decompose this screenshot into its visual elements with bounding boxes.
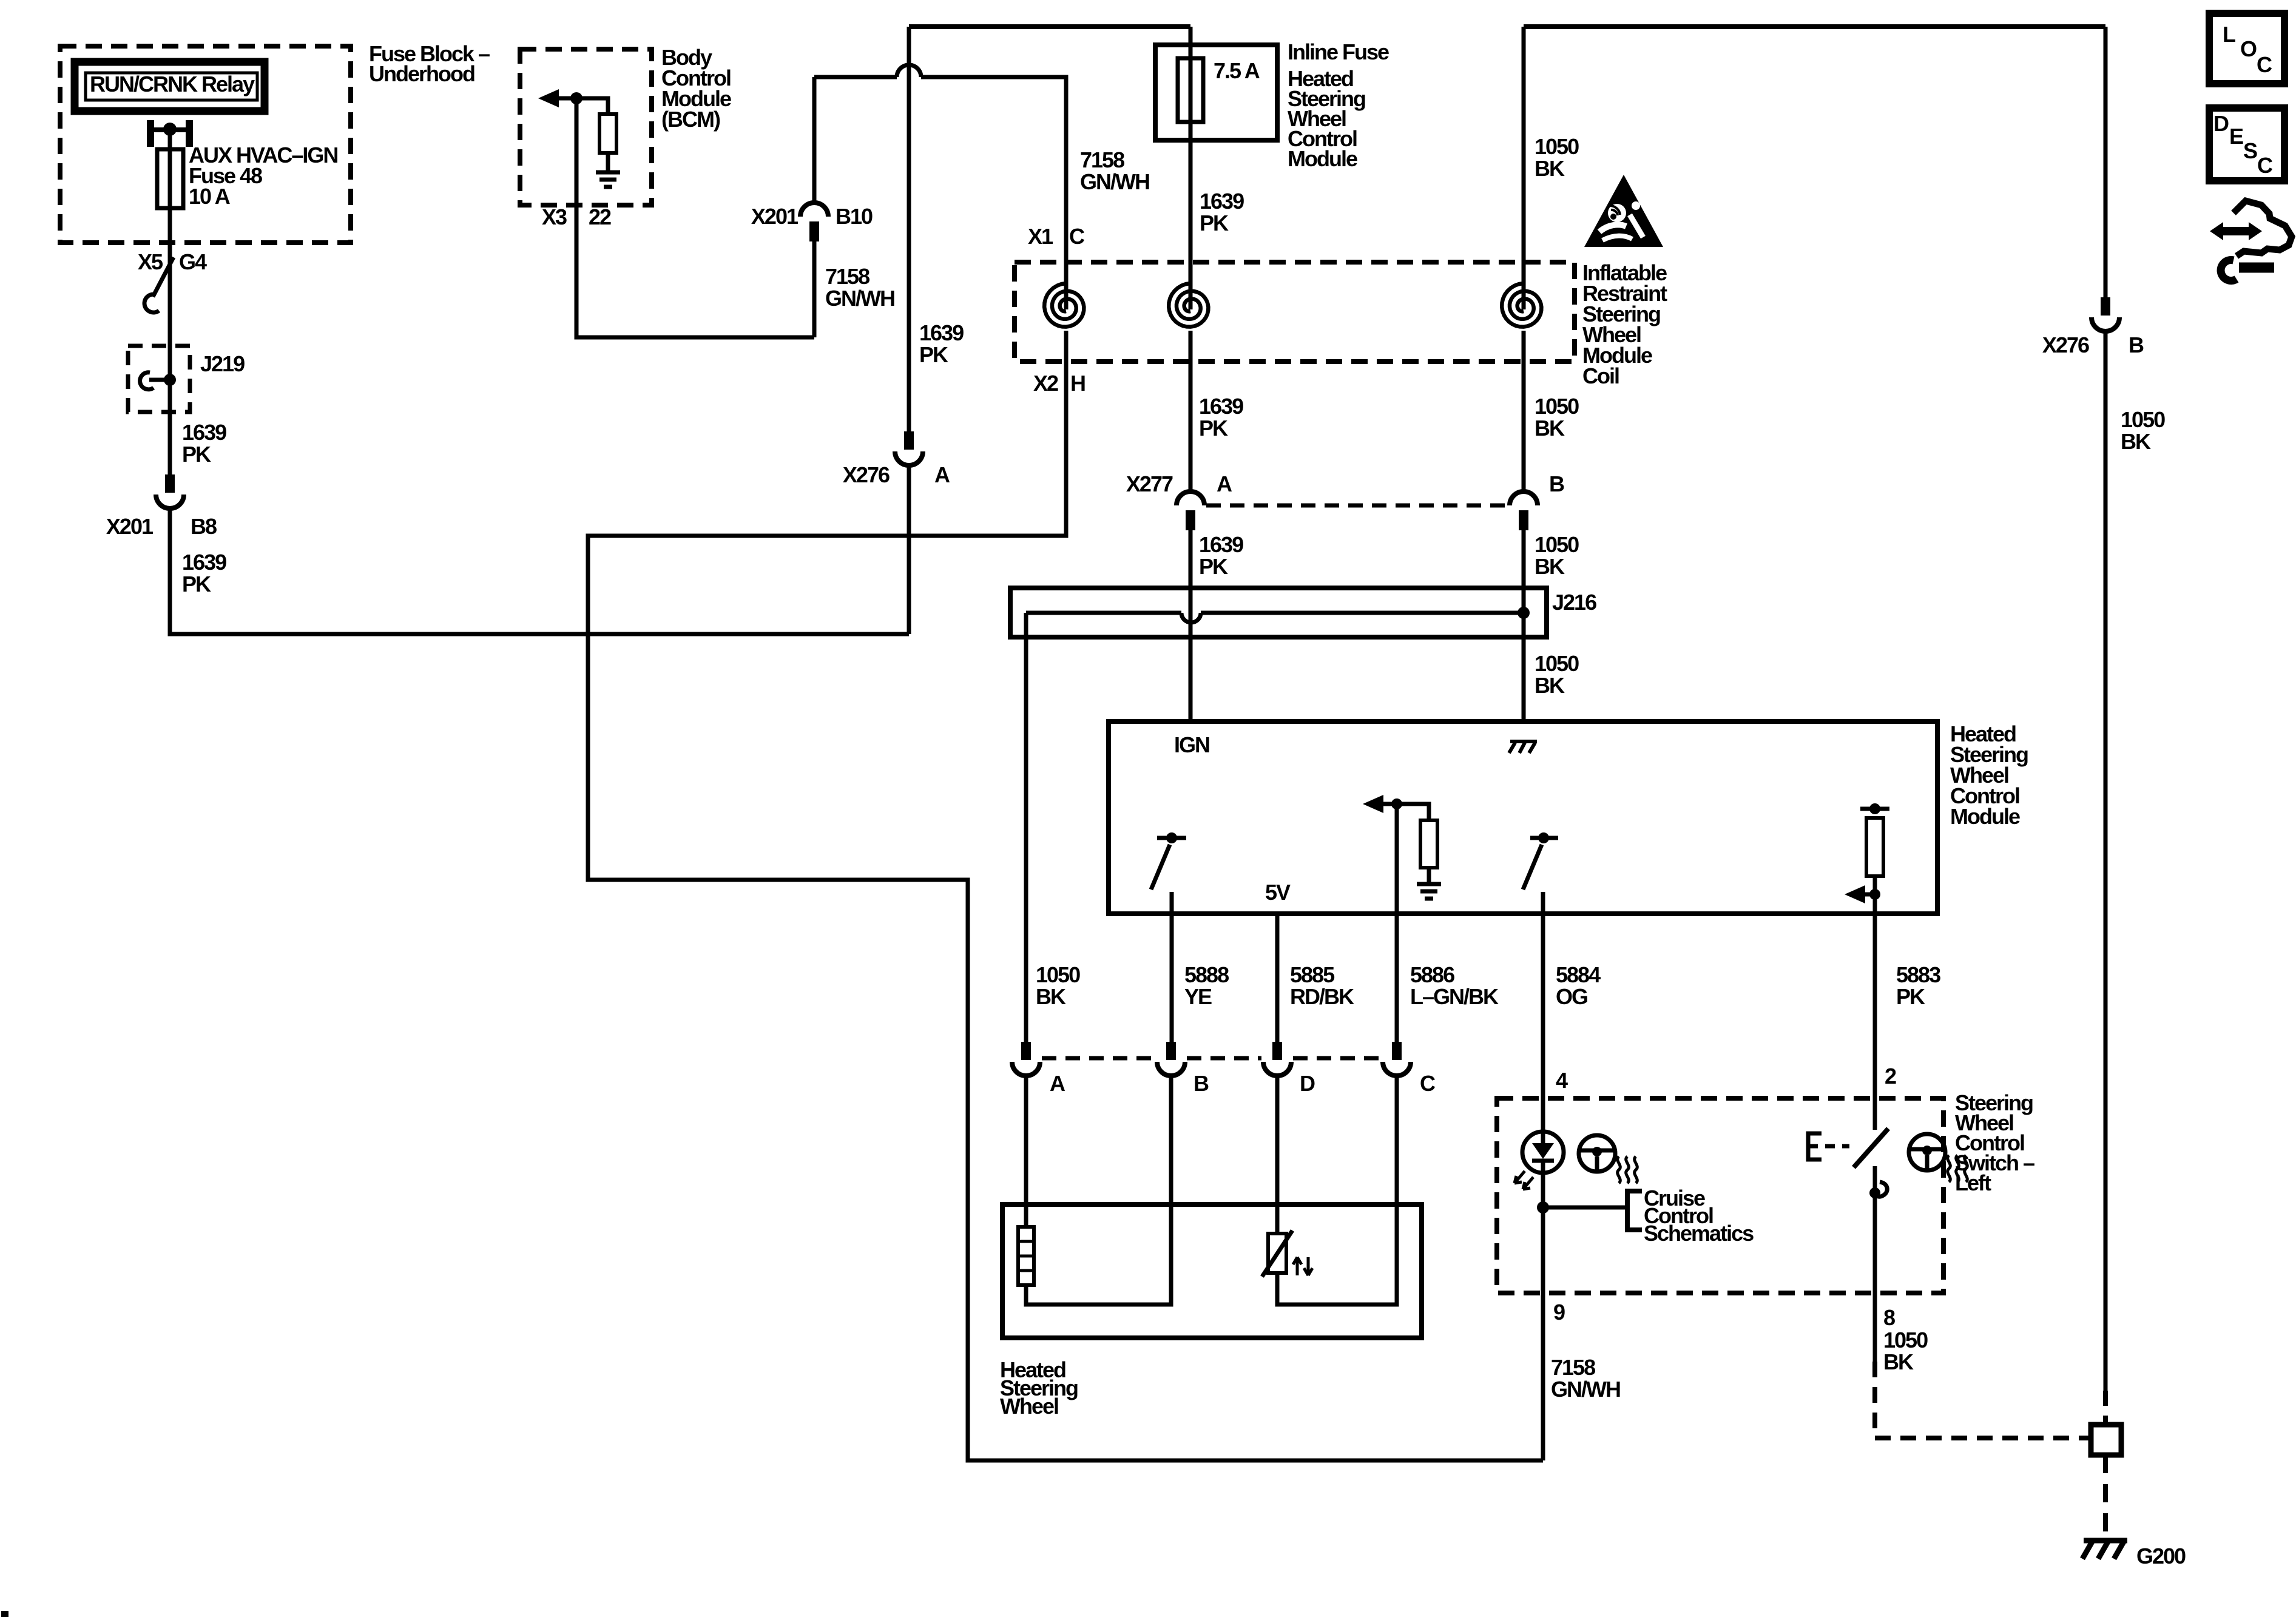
svg-text:1639: 1639 [1199, 532, 1243, 557]
svg-text:X276: X276 [2042, 333, 2089, 357]
svg-text:D: D [2213, 111, 2229, 136]
svg-text:5885: 5885 [1290, 962, 1335, 987]
svg-text:Schematics: Schematics [1644, 1221, 1754, 1246]
svg-text:5884: 5884 [1556, 962, 1601, 987]
svg-text:OG: OG [1556, 984, 1587, 1009]
svg-text:7158: 7158 [825, 264, 869, 289]
svg-text:X201: X201 [751, 204, 799, 229]
svg-text:BK: BK [1535, 156, 1565, 181]
svg-text:BK: BK [2121, 429, 2151, 454]
svg-text:J219: J219 [200, 351, 245, 376]
svg-text:X3: X3 [542, 204, 567, 229]
svg-text:1639: 1639 [182, 420, 226, 445]
svg-text:BK: BK [1535, 554, 1565, 579]
svg-text:E: E [2229, 124, 2243, 149]
svg-text:1639: 1639 [919, 320, 964, 345]
svg-text:X277: X277 [1126, 471, 1173, 496]
svg-text:9: 9 [1553, 1300, 1565, 1325]
svg-text:1050: 1050 [1883, 1328, 1928, 1352]
svg-text:2: 2 [1885, 1064, 1896, 1089]
svg-text:1050: 1050 [1535, 651, 1579, 676]
svg-text:H: H [1070, 371, 1085, 396]
svg-text:C: C [1069, 224, 1085, 249]
svg-text:C: C [2257, 52, 2272, 77]
svg-text:B: B [1194, 1071, 1209, 1096]
svg-text:B: B [1549, 471, 1564, 496]
svg-text:Left: Left [1955, 1170, 1991, 1195]
svg-text:B10: B10 [836, 204, 873, 229]
svg-text:PK: PK [182, 572, 211, 596]
svg-text:B8: B8 [191, 514, 217, 539]
svg-text:J216: J216 [1552, 590, 1596, 615]
svg-text:1050: 1050 [1535, 394, 1579, 419]
svg-text:GN/WH: GN/WH [1551, 1377, 1620, 1402]
svg-text:PK: PK [1199, 554, 1228, 579]
svg-text:C: C [1420, 1071, 1436, 1096]
svg-text:5888: 5888 [1184, 962, 1229, 987]
svg-text:X5: X5 [138, 249, 163, 274]
svg-text:IGN: IGN [1174, 732, 1209, 757]
svg-text:X2: X2 [1033, 371, 1058, 396]
svg-text:RD/BK: RD/BK [1290, 984, 1354, 1009]
svg-text:G4: G4 [179, 249, 207, 274]
svg-text:PK: PK [1200, 211, 1229, 235]
svg-text:B: B [2129, 333, 2144, 357]
svg-text:X1: X1 [1028, 224, 1053, 249]
svg-text:7158: 7158 [1080, 147, 1124, 172]
svg-text:1050: 1050 [2121, 407, 2165, 432]
svg-text:Inline Fuse: Inline Fuse [1288, 39, 1389, 64]
svg-text:BK: BK [1535, 673, 1565, 698]
svg-text:X201: X201 [106, 514, 154, 539]
svg-text:7.5 A: 7.5 A [1214, 58, 1260, 83]
svg-text:1050: 1050 [1535, 134, 1579, 159]
svg-text:Underhood: Underhood [369, 61, 474, 86]
svg-text:S: S [2243, 138, 2257, 163]
svg-text:L: L [2223, 22, 2235, 47]
svg-text:GN/WH: GN/WH [825, 286, 894, 311]
svg-text:A: A [1050, 1071, 1065, 1096]
svg-text:PK: PK [1896, 984, 1925, 1009]
svg-text:O: O [2240, 36, 2257, 61]
svg-text:BK: BK [1535, 416, 1565, 441]
svg-text:7158: 7158 [1551, 1355, 1595, 1380]
svg-text:1639: 1639 [182, 550, 226, 575]
svg-text:PK: PK [182, 442, 211, 467]
svg-text:BK: BK [1883, 1349, 1914, 1374]
svg-text:1050: 1050 [1036, 962, 1080, 987]
svg-text:Module: Module [1950, 804, 2020, 829]
svg-text:1050: 1050 [1535, 532, 1579, 557]
svg-text:RUN/CRNK Relay: RUN/CRNK Relay [90, 72, 255, 96]
svg-text:D: D [1300, 1071, 1315, 1096]
svg-text:PK: PK [919, 342, 948, 367]
svg-text:8: 8 [1883, 1305, 1895, 1330]
svg-text:C: C [2257, 153, 2273, 178]
svg-text:1639: 1639 [1199, 394, 1243, 419]
svg-text:5V: 5V [1265, 880, 1291, 905]
svg-text:G200: G200 [2136, 1544, 2186, 1568]
svg-text:A: A [1217, 471, 1232, 496]
svg-text:10 A: 10 A [189, 184, 231, 209]
svg-text:L–GN/BK: L–GN/BK [1410, 984, 1499, 1009]
svg-text:Coil: Coil [1582, 363, 1619, 388]
svg-text:A: A [934, 462, 950, 487]
svg-text:22: 22 [589, 204, 611, 229]
svg-text:4: 4 [1556, 1068, 1568, 1093]
svg-text:YE: YE [1184, 984, 1212, 1009]
svg-text:(BCM): (BCM) [661, 107, 720, 132]
svg-text:1639: 1639 [1200, 189, 1244, 214]
svg-text:GN/WH: GN/WH [1080, 169, 1149, 194]
svg-text:Module: Module [1288, 146, 1357, 171]
svg-text:5883: 5883 [1896, 962, 1940, 987]
svg-text:BK: BK [1036, 984, 1066, 1009]
svg-text:X276: X276 [843, 462, 890, 487]
svg-text:Wheel: Wheel [1000, 1394, 1058, 1419]
svg-text:PK: PK [1199, 416, 1228, 441]
svg-text:5886: 5886 [1410, 962, 1454, 987]
